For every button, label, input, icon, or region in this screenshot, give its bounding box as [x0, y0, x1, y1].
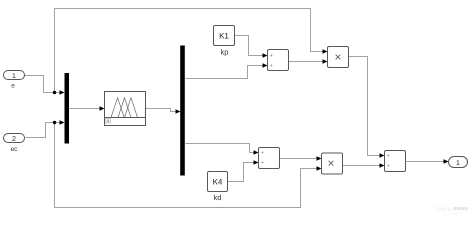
svg-text:kd: kd: [214, 193, 222, 202]
svg-text:CSDN @: CSDN @: [434, 207, 452, 212]
svg-text:1: 1: [456, 160, 460, 167]
svg-text:K1: K1: [219, 32, 229, 41]
svg-text:1: 1: [12, 73, 16, 80]
svg-text:e: e: [11, 83, 15, 90]
svg-text:K4: K4: [213, 178, 223, 187]
svg-text:2: 2: [12, 136, 16, 143]
svg-text:kp: kp: [221, 48, 229, 57]
svg-text:ec: ec: [11, 146, 19, 153]
